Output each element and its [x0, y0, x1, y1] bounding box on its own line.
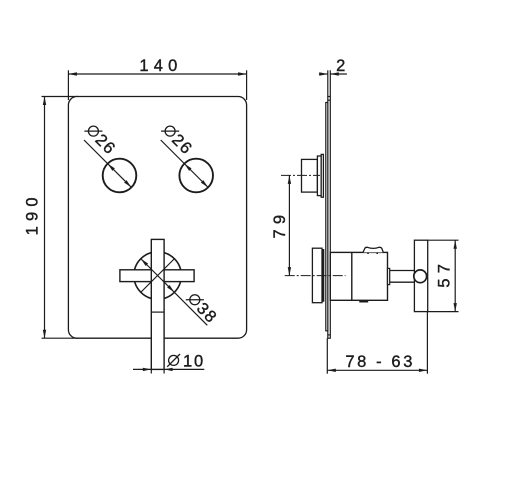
housing bottom nub — [359, 300, 368, 302]
lower valve dark flange — [322, 249, 324, 302]
79 dimension — [271, 175, 291, 275]
upper valve body box — [302, 159, 318, 192]
side plate (2mm) — [328, 97, 331, 339]
handle rod — [390, 270, 415, 272]
svg-text:2: 2 — [336, 57, 345, 75]
seal plate behind — [326, 103, 328, 331]
front plate (rounded rectangle 140x190) — [68, 97, 246, 339]
right hole circle D26 — [179, 159, 213, 193]
lower valve body box — [312, 248, 322, 303]
upper valve flange 1 — [317, 156, 321, 196]
upper valve flange 2 — [321, 154, 323, 197]
svg-text:10: 10 — [183, 352, 205, 370]
upper centerline — [281, 174, 320, 176]
sleeve/housing joint — [351, 252, 353, 300]
D10 label — [167, 352, 205, 370]
lower centerline — [285, 275, 346, 277]
svg-text:79: 79 — [271, 210, 289, 239]
78-63 dimension — [327, 312, 427, 374]
side view: 2mm dimension — [319, 57, 347, 97]
housing top cap — [363, 247, 383, 252]
D38 leader line — [141, 259, 207, 326]
housing cap ticks — [367, 252, 369, 254]
lever joint tick — [151, 311, 164, 313]
left D26 leader line — [84, 140, 131, 187]
cross handle horizontal bar — [120, 270, 194, 282]
handle stem collar — [388, 268, 390, 284]
svg-text:78 - 63: 78 - 63 — [345, 353, 415, 371]
left D26 label — [82, 121, 120, 159]
escutcheon sleeve + cartridge housing — [330, 252, 387, 300]
front view: 140 dimension — [68, 57, 246, 100]
svg-text:140: 140 — [139, 57, 182, 75]
plate tick top — [328, 99, 331, 101]
handle bar (side) — [414, 240, 427, 311]
57 dimension — [428, 240, 459, 311]
svg-text:57: 57 — [436, 259, 454, 288]
svg-text:190: 190 — [24, 192, 42, 235]
D38 label — [183, 290, 221, 328]
plate tick bottom — [328, 334, 331, 336]
cross handle vertical bar / lever — [151, 239, 164, 369]
D10 dimension at lever end — [133, 368, 204, 374]
knob circle — [414, 270, 427, 283]
right D26 leader line — [161, 140, 208, 187]
cross handle circle D38 — [134, 252, 181, 299]
D38 second diagonal — [141, 259, 175, 293]
right D26 label — [158, 121, 196, 159]
left hole circle D26 — [103, 159, 137, 193]
front view: 190 dimension — [24, 97, 78, 339]
